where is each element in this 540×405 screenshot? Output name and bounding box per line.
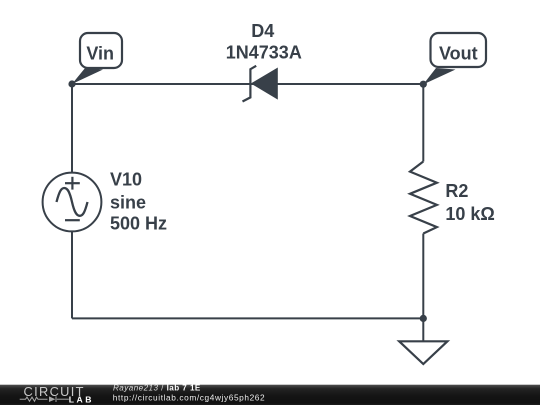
node Vout junction dot: [420, 81, 427, 88]
voltage source plus sign: [65, 177, 80, 190]
label R2 text: [445, 181, 494, 224]
node Vin junction dot: [68, 80, 75, 87]
wire top horizontal Vin to Vout: [72, 83, 423, 85]
wire left vertical lower (V10 bottom to corner): [71, 231, 73, 318]
wire ground stub: [422, 318, 424, 341]
flag Vin pointer wedge: [72, 68, 103, 85]
logo resistor squiggle: [20, 397, 48, 401]
wire right vertical lower (R2 bottom to ground node): [422, 234, 424, 319]
svg-text:http://circuitlab.com/cg4wjy65: http://circuitlab.com/cg4wjy65ph262: [113, 392, 265, 402]
label V10 value text: [110, 170, 167, 234]
flag Vout pointer wedge: [423, 68, 455, 84]
flag Vin rounded box: [80, 33, 122, 68]
logo diode triangle: [49, 396, 55, 402]
logo diode cathode bar: [55, 396, 57, 402]
diode D4 zener cathode bar: [243, 66, 257, 102]
voltage source V10 sine wave: [57, 188, 88, 216]
svg-text:LAB: LAB: [69, 395, 94, 405]
wire left vertical upper (Vin node to V10 top): [71, 84, 73, 173]
voltage source V10 circle: [43, 173, 102, 232]
resistor R2 zigzag: [410, 162, 437, 234]
node ground junction dot: [420, 315, 427, 322]
logo diode wire: [57, 398, 69, 400]
flag Vout rounded box: [431, 33, 487, 67]
diode D4 triangle (anode): [251, 68, 278, 100]
wire bottom horizontal: [72, 317, 423, 319]
footer bar background: [0, 385, 540, 405]
svg-text:Rayane213 / lab 7 1E: Rayane213 / lab 7 1E: [113, 383, 201, 392]
wire right vertical upper (Vout node to R2 top): [422, 84, 424, 162]
voltage source minus sign: [65, 219, 80, 221]
ground symbol triangle: [399, 341, 447, 364]
